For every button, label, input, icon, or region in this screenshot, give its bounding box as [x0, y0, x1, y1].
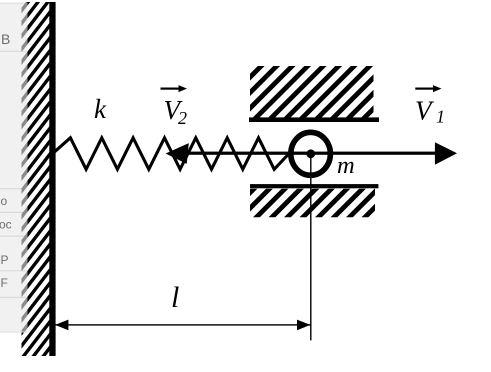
- svg-text:l: l: [171, 281, 179, 314]
- svg-text:B: B: [1, 31, 10, 47]
- sidebar bottom edge: [0, 332, 27, 333]
- svg-text:2: 2: [178, 108, 187, 128]
- vector arrow over V1: [415, 88, 435, 90]
- sidebar top border: [0, 3, 27, 4]
- svg-text:1: 1: [436, 107, 445, 127]
- main horizontal line through mass: [178, 152, 436, 155]
- spring k: [53, 138, 290, 170]
- arrowhead V1 (right): [435, 142, 457, 164]
- top guide block lower face line: [249, 117, 379, 122]
- gray hatch stubs over sidebar: [20, 0, 51, 372]
- svg-text:P: P: [1, 253, 9, 267]
- dimension line l: [55, 324, 311, 325]
- vertical extension line: [310, 154, 311, 340]
- svg-text:m: m: [337, 152, 355, 179]
- bottom guide block hatching: [208, 186, 412, 219]
- mass circle m: [291, 132, 331, 175]
- svg-text:F: F: [1, 276, 8, 290]
- vector arrow over V2: [161, 88, 181, 90]
- svg-text:oc: oc: [0, 218, 12, 232]
- wall hatching (black): [20, 0, 51, 372]
- top guide block hatching: [177, 63, 435, 119]
- svg-text:k: k: [94, 94, 107, 124]
- svg-text:o: o: [1, 194, 8, 208]
- sidebar separator lines: [0, 51, 26, 52]
- sidebar panel: [0, 3, 27, 332]
- arrowhead V2 (left): [166, 143, 189, 164]
- wall face (thick vertical bar): [49, 2, 55, 356]
- bottom guide block upper face line: [250, 184, 378, 188]
- center dot of mass: [306, 149, 315, 158]
